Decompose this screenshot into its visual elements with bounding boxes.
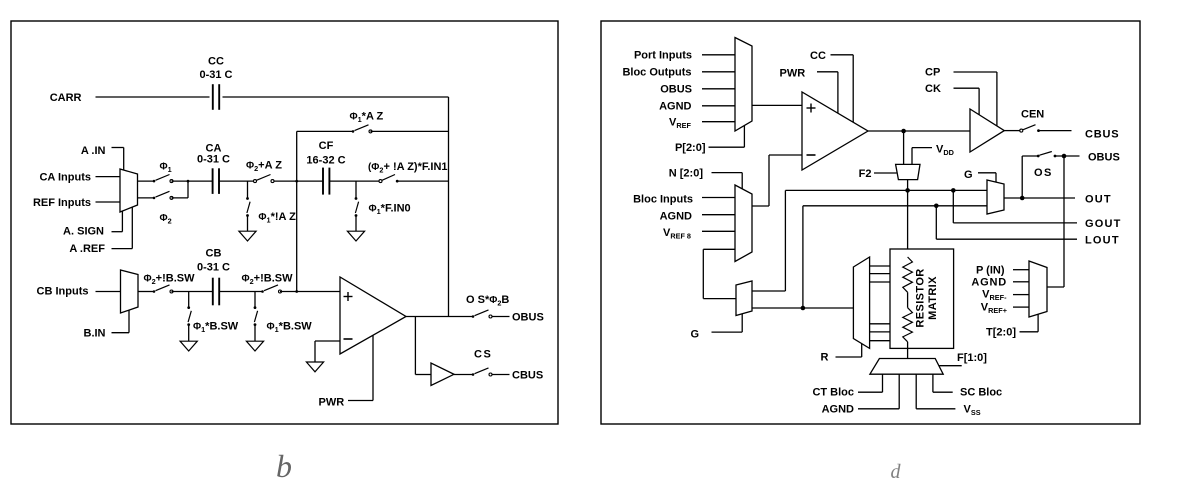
wire buffer branch vertical	[414, 317, 416, 375]
svg-text:PWR: PWR	[780, 68, 806, 80]
switch (phi2+!AZ)*F.IN1	[379, 175, 399, 183]
svg-text:0-31 C: 0-31 C	[199, 69, 232, 81]
mux G gain selector	[987, 180, 1004, 214]
wire R vertical	[861, 344, 863, 358]
wire mux B out	[138, 291, 154, 293]
buffer amplifier CS path	[431, 363, 454, 386]
wire A.SIGN vertical	[121, 211, 123, 232]
svg-text:0-31 C: 0-31 C	[197, 262, 230, 274]
svg-text:REF Inputs: REF Inputs	[33, 197, 91, 209]
junction row A / GOUT branch	[951, 188, 956, 193]
svg-text:F2: F2	[859, 168, 872, 180]
junction row B / LOUT branch	[934, 204, 939, 209]
svg-text:CS: CS	[474, 349, 492, 361]
mux T input selector	[1029, 261, 1047, 317]
wire mux R stub 3	[870, 281, 890, 283]
mux A input selector	[120, 169, 138, 212]
svg-text:Φ2+!B.SW: Φ2+!B.SW	[144, 273, 196, 287]
svg-text:N [2:0]: N [2:0]	[669, 168, 704, 180]
svg-text:CBUS: CBUS	[512, 370, 543, 382]
svg-text:Φ2+!B.SW: Φ2+!B.SW	[242, 273, 294, 287]
svg-text:VREF: VREF	[669, 117, 691, 131]
ground under phi1*F.IN0	[347, 231, 364, 241]
svg-text:MATRIX: MATRIX	[927, 276, 939, 320]
wire VDD horizontal	[912, 147, 932, 149]
svg-text:CBUS: CBUS	[1085, 129, 1119, 141]
svg-text:CP: CP	[925, 67, 940, 79]
wire CC to feedback node	[223, 96, 449, 98]
wire F2 to bucket	[874, 172, 897, 174]
wire A.REF horizontal	[112, 248, 133, 250]
wire SC Bloc leg	[932, 374, 934, 392]
wire mux R stub 6	[870, 340, 890, 342]
svg-text:CB Inputs: CB Inputs	[37, 286, 89, 298]
wire to CBUS right panel	[1039, 130, 1072, 132]
wire CA to switch phi2+AZ	[219, 180, 254, 182]
wire between resistors	[907, 292, 909, 307]
wire vertical to row A	[784, 190, 786, 291]
svg-text:CA Inputs: CA Inputs	[39, 172, 91, 184]
switch CEN	[1020, 125, 1040, 132]
svg-text:CB: CB	[206, 248, 222, 260]
svg-text:VREF-: VREF-	[982, 289, 1007, 303]
wire mux A phi2 out	[138, 197, 155, 199]
junction bucket / row A	[905, 188, 910, 193]
svg-text:AGND: AGND	[660, 211, 692, 223]
svg-text:CC: CC	[810, 50, 826, 62]
comparator U3	[970, 109, 1004, 152]
wire row B to mux G	[803, 205, 987, 207]
svg-text:SC Bloc: SC Bloc	[960, 387, 1002, 399]
wire CC vertical to U2	[852, 55, 854, 123]
wire PWR horizontal right panel	[817, 71, 838, 73]
wire AZ ground branch upper	[247, 181, 249, 198]
svg-text:OBUS: OBUS	[660, 84, 692, 96]
wire G right vertical	[995, 173, 997, 183]
wire P[2:0] vertical	[743, 126, 745, 148]
svg-text:Φ1*A Z: Φ1*A Z	[350, 111, 384, 125]
wire G vertical	[741, 314, 743, 332]
capacitor CA (0-31 C)	[213, 168, 219, 194]
mux G2 feedback selector	[736, 281, 752, 316]
svg-text:VSS: VSS	[964, 404, 981, 418]
wire AZ row right	[371, 130, 449, 132]
wire elbow from mux N	[703, 248, 735, 250]
switch CS	[472, 368, 492, 376]
switch OS*phi2B	[472, 310, 492, 318]
wire to OBUS right panel	[1055, 155, 1080, 157]
minus sign U2	[807, 154, 816, 156]
switch OS	[1037, 152, 1057, 158]
capacitor CF (16-32 C)	[323, 168, 329, 195]
svg-text:0-31 C: 0-31 C	[197, 154, 230, 166]
minus sign U1	[344, 338, 353, 340]
wire R horizontal	[836, 356, 862, 358]
wire minus input to ground	[314, 341, 316, 362]
junction row B branch / G2 output	[801, 306, 806, 311]
svg-text:(Φ2+ !A Z)*F.IN1: (Φ2+ !A Z)*F.IN1	[368, 161, 448, 175]
svg-text:Φ1*!A Z: Φ1*!A Z	[258, 211, 296, 225]
svg-text:CT Bloc: CT Bloc	[812, 387, 854, 399]
svg-text:P (IN): P (IN)	[976, 265, 1005, 277]
wire node to F2 bucket	[903, 131, 905, 164]
wire buffer to CS switch	[454, 374, 473, 376]
svg-text:RESISTOR: RESISTOR	[915, 268, 927, 327]
mux R resistor selector	[853, 257, 869, 348]
wire U1 minus input	[315, 340, 340, 342]
wire Bloc Inputs	[702, 197, 735, 199]
switch phi1*B.SW right	[254, 306, 258, 326]
wire B.SW ground branch 1 lower	[188, 325, 190, 342]
wire mux R stub 2	[870, 273, 890, 275]
wire OS branch vertical	[1021, 156, 1023, 198]
wire row A to mux G	[785, 189, 987, 191]
plus sign U1	[344, 292, 353, 301]
wire A.SIGN horizontal	[112, 231, 123, 233]
svg-text:VREF 8: VREF 8	[663, 227, 691, 241]
resistor R1	[903, 257, 913, 292]
switch phi2+!B.SW left	[153, 285, 173, 293]
wire CB Inputs	[96, 291, 121, 293]
wire PWR vertical to U2	[837, 72, 839, 114]
wire B.SW ground branch 2 upper	[254, 292, 256, 308]
wire CC horizontal	[831, 54, 854, 56]
svg-text:AGND: AGND	[659, 101, 691, 113]
svg-text:OBUS: OBUS	[1088, 152, 1120, 164]
svg-text:b: b	[276, 448, 292, 484]
svg-text:OUT: OUT	[1085, 194, 1112, 206]
svg-text:CC: CC	[208, 56, 224, 68]
wire mux R stub 4	[870, 323, 890, 325]
svg-text:AGND: AGND	[971, 277, 1007, 289]
svg-text:T[2:0]: T[2:0]	[986, 327, 1016, 339]
wire mux G2 upper right	[752, 290, 785, 292]
wire OBUS to mux T vertical	[1063, 156, 1065, 287]
svg-text:VDD: VDD	[936, 144, 954, 158]
wire P(IN)	[1013, 269, 1029, 271]
svg-text:16-32 C: 16-32 C	[306, 155, 345, 167]
resistor matrix box	[890, 249, 954, 348]
wire AGND row	[858, 408, 899, 410]
wire AGND input N	[702, 214, 735, 216]
wire AGND input T	[1013, 281, 1029, 283]
wire VSS row	[916, 408, 955, 410]
junction CF box left / CA row	[295, 180, 298, 183]
switch phi1*F.IN0	[355, 197, 359, 217]
mux P input selector	[735, 38, 752, 132]
wire LOUT branch vertical	[935, 206, 937, 239]
bus selector F[1:0]	[870, 359, 943, 375]
wire CP horizontal	[954, 71, 997, 73]
svg-text:GOUT: GOUT	[1085, 218, 1122, 230]
switch phi2	[153, 191, 173, 199]
svg-text:A .REF: A .REF	[69, 243, 105, 255]
wire VREF input	[702, 121, 735, 123]
wire CARR to CC	[96, 96, 210, 98]
wire U2 minus input	[769, 154, 802, 156]
svg-text:OBUS: OBUS	[512, 312, 544, 324]
wire SC Bloc row	[933, 391, 953, 393]
wire AZ ground branch lower	[247, 216, 249, 232]
svg-text:Bloc Inputs: Bloc Inputs	[633, 194, 693, 206]
wire vertical row B branch	[802, 206, 804, 308]
wire mux A phi1 out	[138, 180, 155, 182]
svg-text:G: G	[964, 169, 973, 181]
wire switch to CF	[274, 180, 323, 182]
wire phi rows join vertical	[187, 181, 189, 198]
wire G horizontal	[712, 331, 743, 333]
junction phi rows	[187, 180, 190, 183]
wire Bloc Outputs	[702, 71, 735, 73]
wire CB cap to switch	[219, 291, 262, 293]
wire CA Inputs	[96, 176, 121, 178]
svg-text:OS: OS	[1034, 167, 1053, 179]
wire to CBUS	[492, 374, 510, 376]
switch phi1*B.SW left	[187, 306, 191, 326]
svg-text:PWR: PWR	[319, 397, 345, 409]
junction OBUS / T output vertical	[1062, 154, 1067, 159]
wire mux N output	[752, 205, 769, 207]
resistor R2	[903, 308, 913, 342]
wire CK vertical	[978, 88, 980, 115]
svg-text:Φ2+A Z: Φ2+A Z	[246, 160, 282, 174]
wire U1 output	[406, 316, 473, 318]
op-amp U1	[340, 277, 406, 354]
wire phi2 to node	[172, 197, 189, 199]
wire VREF+ input	[1013, 306, 1029, 308]
wire node to CA	[188, 180, 213, 182]
svg-text:LOUT: LOUT	[1085, 235, 1120, 247]
svg-text:O S*Φ2B: O S*Φ2B	[466, 294, 509, 308]
wire CB row to op-amp +	[280, 291, 340, 293]
wire F.IN0 branch upper	[355, 181, 357, 198]
wire CK horizontal	[954, 87, 980, 89]
wire N[2:0] horizontal	[712, 172, 743, 174]
wire PWR vertical to U1	[372, 335, 374, 401]
svg-text:d: d	[891, 461, 902, 483]
wire CT Bloc leg	[882, 374, 884, 392]
switch phi1*AZ	[352, 125, 372, 133]
wire A.REF vertical	[131, 207, 133, 249]
wire P[2:0] horizontal	[709, 146, 745, 148]
wire OBUS input	[702, 88, 735, 90]
wire AZ row left	[297, 130, 353, 132]
wire B.SW ground branch 2 lower	[254, 325, 256, 342]
wire OS switch left	[1022, 155, 1038, 157]
svg-text:Φ1*B.SW: Φ1*B.SW	[267, 321, 313, 335]
switch phi1	[153, 175, 173, 183]
svg-text:CARR: CARR	[50, 92, 82, 104]
svg-text:Φ1: Φ1	[160, 162, 172, 175]
wire A.IN vertical	[123, 148, 125, 171]
svg-text:F[1:0]: F[1:0]	[957, 352, 987, 364]
svg-text:R: R	[821, 352, 829, 364]
wire PWR horizontal	[348, 400, 373, 402]
svg-text:B.IN: B.IN	[84, 328, 106, 340]
svg-text:A. SIGN: A. SIGN	[63, 226, 104, 238]
wire U2 output to comparator	[868, 130, 970, 132]
switch phi1*!AZ	[246, 197, 250, 217]
mux B input selector	[121, 270, 139, 313]
right panel border frame	[601, 21, 1140, 424]
wire A.IN horizontal	[112, 147, 124, 149]
wire T[2:0] horizontal	[1020, 331, 1039, 333]
wire OUT row	[1004, 197, 1075, 199]
capacitor CB (0-31 C)	[213, 278, 219, 306]
wire elbow to mux G2	[703, 298, 736, 300]
wire LOUT row	[936, 238, 1077, 240]
switch phi2+!B.SW right	[261, 285, 281, 293]
wire comparator output	[1004, 130, 1020, 132]
wire phi1 to node	[172, 180, 189, 182]
wire GOUT branch vertical	[952, 190, 954, 223]
wire to CB cap	[172, 291, 213, 293]
ground under phi1*B.SW left	[180, 341, 197, 351]
wire CT Bloc row	[858, 391, 883, 393]
wire F.IN1 to feedback vertical	[399, 180, 449, 182]
mux N input selector	[735, 185, 752, 262]
wire mux R stub 5	[870, 331, 890, 333]
svg-text:Φ1*F.IN0: Φ1*F.IN0	[369, 203, 411, 217]
capacitor CC (0-31 C)	[213, 84, 219, 110]
svg-text:CEN: CEN	[1021, 109, 1044, 121]
wire CP vertical	[996, 72, 998, 126]
transistor F2 bucket	[896, 164, 920, 179]
svg-text:CF: CF	[319, 140, 334, 152]
wire F.IN0 branch lower	[355, 216, 357, 232]
wire F[1:0]	[939, 365, 962, 367]
junction CB row / CF box vertical	[295, 290, 298, 293]
svg-text:AGND: AGND	[822, 404, 854, 416]
wire mux R stub 1	[870, 265, 890, 267]
wire VREF8 input	[702, 230, 735, 232]
wire to OBUS	[492, 316, 510, 318]
wire feedback vertical right	[448, 97, 450, 317]
wire mux G2 output to resistor mux	[752, 307, 853, 309]
plus sign U2	[807, 104, 816, 113]
svg-text:Φ1*B.SW: Φ1*B.SW	[193, 321, 239, 335]
wire VREF- input	[1013, 294, 1029, 296]
svg-text:Port Inputs: Port Inputs	[634, 50, 692, 62]
wire T[2:0] vertical	[1037, 315, 1039, 332]
wire CF to switch F.IN1	[330, 180, 380, 182]
wire resistor chain to F bus	[907, 342, 909, 359]
wire mux P output to op-amp	[752, 104, 802, 106]
svg-text:Φ2: Φ2	[160, 213, 172, 226]
wire G right horizontal	[978, 172, 996, 174]
svg-text:VREF+: VREF+	[981, 302, 1007, 316]
junction U2 output node	[901, 129, 906, 134]
wire B.SW ground branch 1 upper	[188, 292, 190, 308]
junction OUT row / OS branch	[1020, 196, 1025, 201]
wire elbow vertical	[702, 249, 704, 298]
wire B.IN vertical	[128, 310, 130, 333]
op-amp U2	[802, 92, 868, 170]
wire VSS leg	[915, 374, 917, 409]
wire REF Inputs	[96, 201, 121, 203]
svg-text:A .IN: A .IN	[81, 145, 106, 157]
wire bucket to resistor matrix	[907, 180, 909, 249]
svg-text:Bloc Outputs: Bloc Outputs	[622, 67, 691, 79]
wire VDD vertical	[911, 148, 913, 165]
ground under phi1*B.SW right	[246, 341, 263, 351]
wire minus input vertical	[768, 155, 770, 206]
ground under phi1*!AZ	[239, 231, 256, 241]
wire AGND leg	[898, 374, 900, 409]
svg-text:G: G	[690, 329, 699, 341]
svg-text:CK: CK	[925, 83, 941, 95]
left panel border frame	[11, 21, 558, 424]
svg-text:P[2:0]: P[2:0]	[675, 142, 706, 154]
wire Port Inputs	[702, 54, 735, 56]
switch phi2+AZ	[254, 175, 275, 183]
wire to buffer	[415, 374, 431, 376]
wire AGND input P	[702, 105, 735, 107]
wire GOUT row	[953, 222, 1077, 224]
ground at U1 minus input	[306, 362, 323, 372]
wire CF box left vertical	[296, 131, 298, 291]
wire mux T output	[1047, 286, 1064, 288]
wire N[2:0] vertical	[741, 173, 743, 189]
wire B.IN horizontal	[112, 332, 130, 334]
